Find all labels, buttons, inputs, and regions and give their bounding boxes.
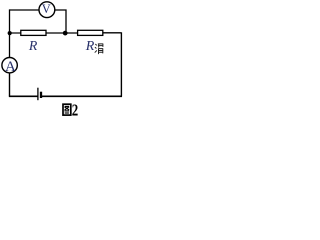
wire bottom right of battery: [42, 95, 122, 97]
wire bottom left of battery: [9, 95, 38, 97]
ammeter A1 circle: [2, 57, 17, 72]
svg-text:R: R: [28, 38, 38, 53]
battery short thick plate (negative): [40, 92, 42, 98]
svg-text:R: R: [85, 39, 95, 54]
svg-text:2: 2: [72, 101, 78, 118]
wire top-left horizontal to voltmeter: [10, 9, 40, 11]
voltmeter U1 circle: [39, 2, 55, 18]
wire left vertical upper (corner to ammeter): [9, 9, 11, 57]
rheostat R_hua body: [78, 30, 103, 35]
wire left vertical lower (ammeter to bottom corner): [9, 73, 11, 97]
node B junction dot: [63, 31, 68, 36]
battery long plate (positive): [37, 88, 39, 101]
rheostat subscript hua (CJK glyph drawn as strokes): [95, 44, 103, 54]
svg-text:V: V: [42, 2, 51, 16]
wire rheostat to top-right corner and right vertical: [103, 32, 122, 96]
wire R to node B to rheostat: [46, 32, 78, 34]
resistor R body: [21, 30, 46, 35]
wire voltmeter right + drop to node B: [55, 10, 66, 31]
svg-text:A: A: [5, 59, 16, 75]
caption tu (figure) glyph drawn as strokes: [63, 104, 71, 115]
wire node A to resistor R: [10, 32, 21, 34]
node A junction dot: [8, 31, 12, 35]
